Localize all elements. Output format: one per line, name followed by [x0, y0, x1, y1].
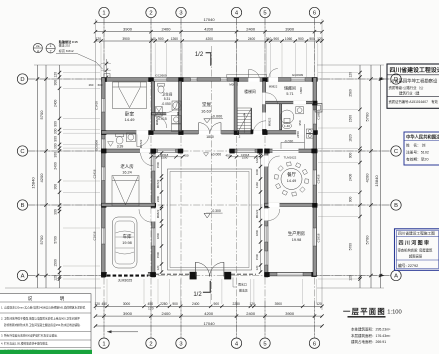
svg-text:2. 卫生间地坪低于楼面,地面与墙面防水砂浆上卷高900,卫: 2. 卫生间地坪低于楼面,地面与墙面防水砂浆上卷高900,卫生间地坪 — [1, 317, 80, 321]
left wing C wall columns — [101, 149, 155, 154]
svg-text:300: 300 — [54, 143, 58, 149]
window C1518 right wing — [265, 251, 268, 265]
window north bay3-4 right — [221, 78, 228, 81]
svg-text:车库: 车库 — [123, 233, 132, 240]
door opening prod top — [269, 203, 280, 207]
svg-text:1160: 1160 — [255, 182, 259, 188]
window east kitchen — [313, 110, 316, 124]
svg-text:5700: 5700 — [349, 243, 353, 251]
bath fixtures bay56 — [280, 107, 303, 129]
svg-text:注册号：5102: 注册号：5102 — [406, 149, 429, 154]
svg-text:-0.050: -0.050 — [161, 102, 171, 106]
grid bubble 5 bottom — [260, 338, 270, 348]
svg-text:5700: 5700 — [364, 235, 369, 245]
svg-text:120: 120 — [349, 275, 353, 281]
label bath 3.39 — [117, 145, 124, 149]
svg-text:4200: 4200 — [204, 311, 214, 316]
svg-text:C2418: C2418 — [93, 169, 97, 178]
svg-text:600: 600 — [98, 83, 103, 87]
svg-text:1500: 1500 — [255, 253, 259, 260]
svg-text:编号: 22792: 编号: 22792 — [398, 263, 418, 268]
grid bubble D right — [391, 74, 401, 84]
svg-text:300: 300 — [54, 128, 58, 134]
svg-text:JLM3025: JLM3025 — [118, 279, 132, 283]
svg-text:3: 3 — [179, 11, 182, 17]
top band inner wall columns — [148, 130, 267, 135]
svg-text:资质等级:公路行业（公: 资质等级:公路行业（公 — [389, 85, 424, 90]
svg-text:16.63: 16.63 — [201, 109, 212, 114]
garage door JLM3025 — [107, 272, 148, 277]
window C1818 right wing — [265, 226, 268, 242]
bath door opening bay23 — [166, 112, 177, 115]
svg-text:4200: 4200 — [39, 173, 44, 183]
code C1418 west — [95, 101, 99, 110]
svg-text:川省基园华坤工程勘察设: 川省基园华坤工程勘察设 — [390, 77, 438, 84]
svg-text:3: 3 — [179, 341, 182, 347]
code C18B east — [317, 112, 321, 119]
grid bubble 1 bottom — [99, 338, 109, 348]
bottom dimension line overall 17040 — [94, 321, 324, 328]
grid bubble 6 top — [309, 7, 319, 17]
elevation veranda — [204, 153, 222, 157]
stair-storage door opening — [262, 93, 265, 105]
right wing courtyard wall — [265, 151, 268, 277]
svg-text:120: 120 — [54, 275, 58, 281]
label garage — [122, 233, 132, 245]
svg-text:900: 900 — [349, 196, 353, 202]
svg-text:300: 300 — [54, 209, 58, 215]
svg-text:900: 900 — [54, 184, 58, 190]
exterior landing above north wall — [227, 74, 267, 77]
door opening prod room — [264, 209, 268, 221]
bath door opening bay12 — [136, 130, 149, 134]
svg-text:900: 900 — [158, 37, 164, 41]
window C1518 veranda west — [158, 149, 176, 152]
east wall niche — [315, 103, 322, 112]
grid bubble 5 top — [260, 7, 270, 17]
right wing C wall columns — [264, 149, 316, 154]
svg-text:5: 5 — [263, 11, 266, 17]
grid bubble 4 bottom — [231, 338, 241, 348]
left wing courtyard wall — [152, 151, 155, 277]
label elder room — [120, 163, 134, 175]
west wall columns — [101, 130, 106, 277]
svg-text:900: 900 — [54, 121, 58, 127]
right detail extension stubs — [318, 73, 358, 280]
door arc elder room — [141, 153, 154, 166]
svg-text:4200: 4200 — [204, 26, 214, 31]
svg-text:2400: 2400 — [54, 99, 58, 107]
svg-text:M0822: M0822 — [268, 117, 272, 126]
svg-text:5700: 5700 — [39, 235, 44, 245]
code GC0909 west — [95, 140, 99, 152]
svg-text:1/2: 1/2 — [195, 52, 204, 58]
top detail extension stubs — [101, 43, 318, 77]
right dimension axis spans — [364, 65, 372, 288]
svg-text:审查机构资质: 房屋建筑: 审查机构资质: 房屋建筑 — [398, 247, 434, 252]
svg-text:C2418: C2418 — [317, 174, 321, 183]
window C1418 west bedroom — [102, 99, 105, 113]
stair exit door opening north — [248, 77, 259, 81]
detail note text with leader — [56, 39, 103, 69]
svg-text:老人房: 老人房 — [120, 163, 134, 170]
right dimension overall 15840 — [374, 65, 382, 288]
stamp review certificate — [395, 229, 439, 270]
left wing C wall — [102, 149, 156, 152]
svg-text:C: C — [20, 149, 24, 155]
svg-text:D: D — [20, 77, 24, 83]
bottom detail extension stubs — [107, 279, 317, 304]
grid bubble 3 top — [176, 7, 186, 17]
window north bay3-4 left — [191, 78, 198, 81]
door arc prod room — [268, 209, 280, 221]
label small bath — [161, 92, 172, 107]
svg-text:900: 900 — [172, 302, 178, 306]
svg-text:900: 900 — [349, 152, 353, 158]
svg-text:2400: 2400 — [156, 195, 160, 202]
svg-text:1800: 1800 — [299, 87, 303, 94]
code C2418 west elder — [93, 169, 97, 178]
dim 1800 storage — [299, 87, 303, 94]
svg-text:900: 900 — [214, 302, 220, 306]
code C1518 veranda right — [241, 153, 250, 160]
staircase — [237, 108, 253, 139]
code GC0909 north right — [292, 73, 304, 77]
veranda wall columns — [149, 149, 263, 154]
window GC0909 north bay5-6 — [291, 78, 305, 81]
svg-text:1800: 1800 — [156, 232, 160, 239]
svg-text:M1022: M1022 — [255, 209, 259, 218]
label 2410 — [296, 131, 300, 138]
svg-text:950: 950 — [298, 120, 302, 125]
svg-text:卫生间: 卫生间 — [162, 92, 173, 97]
grid bubble C left — [17, 146, 27, 156]
stair east wall grid5 — [263, 81, 266, 130]
right wing courtyard dim chain — [255, 151, 262, 273]
grid bubble C right — [391, 146, 401, 156]
svg-text:2400: 2400 — [349, 174, 353, 182]
svg-text:-0.030: -0.030 — [284, 140, 294, 144]
svg-text:5700: 5700 — [364, 112, 369, 122]
grid bubble 1 top — [99, 7, 109, 17]
svg-text:做法:25J: 做法:25J — [59, 42, 71, 47]
east wall columns — [312, 101, 317, 208]
svg-text:楼梯间: 楼梯间 — [244, 89, 256, 94]
car in garage — [113, 217, 138, 268]
svg-text:C1818: C1818 — [93, 231, 97, 240]
code M0822 bay23 — [155, 116, 159, 125]
label 950 — [298, 120, 302, 125]
svg-text:雨水口: 雨水口 — [238, 281, 247, 286]
left dimension axis spans — [39, 65, 48, 288]
svg-text:C1418: C1418 — [95, 101, 99, 110]
svg-text:1/2: 1/2 — [193, 292, 202, 298]
left dimension overall 15840 — [31, 65, 40, 288]
svg-text:资质证书编号:A151016407 有效: 资质证书编号:A151016407 有效 — [389, 99, 439, 104]
svg-text:M0722: M0722 — [156, 179, 160, 188]
svg-text:2280: 2280 — [233, 302, 241, 306]
svg-text:A: A — [394, 274, 398, 280]
svg-text:1000: 1000 — [255, 168, 259, 175]
code C1818 west garage — [93, 231, 97, 240]
code C2418 east dining — [317, 174, 321, 183]
svg-text:120: 120 — [255, 265, 259, 270]
svg-text:120: 120 — [94, 302, 100, 306]
svg-text:1500: 1500 — [349, 115, 353, 123]
bottom dimension line axis spans — [94, 311, 324, 318]
left dimension detail chain — [54, 65, 62, 288]
svg-text:2400: 2400 — [246, 311, 256, 316]
svg-text:1: 1 — [50, 44, 52, 48]
svg-text:1620: 1620 — [349, 134, 353, 142]
arrow at A line — [380, 274, 385, 277]
detail reference bubbles — [33, 43, 55, 53]
svg-text:17040: 17040 — [203, 17, 215, 22]
bottom-left dim leader — [107, 330, 138, 333]
svg-text:-0.015: -0.015 — [157, 117, 167, 121]
svg-text:2: 2 — [149, 11, 152, 17]
svg-text:5.71: 5.71 — [286, 92, 293, 96]
storage north door arc — [269, 69, 278, 78]
svg-text:2400: 2400 — [162, 311, 172, 316]
label prod room — [288, 230, 305, 242]
svg-text:900: 900 — [298, 37, 304, 41]
svg-text:1500: 1500 — [54, 259, 58, 267]
bay23 small rooms divider — [152, 113, 179, 115]
right wing south columns — [264, 272, 316, 277]
door arc bath bay23 — [167, 102, 178, 113]
stamp registered architect — [404, 132, 439, 165]
svg-text:3.39: 3.39 — [117, 145, 124, 149]
svg-text:340: 340 — [266, 37, 272, 41]
svg-text:3900: 3900 — [122, 37, 130, 41]
window east prod room — [313, 228, 316, 246]
right wing courtyard wall columns — [264, 149, 269, 277]
dining round table with chairs — [274, 162, 308, 196]
gate column right — [224, 272, 231, 280]
svg-text:1060: 1060 — [285, 37, 293, 41]
label dining — [287, 171, 297, 183]
svg-text:3900: 3900 — [285, 311, 295, 316]
svg-text:3900: 3900 — [275, 302, 283, 306]
svg-text:1500: 1500 — [242, 156, 249, 160]
svg-text:2450: 2450 — [296, 131, 300, 138]
grid bubble 6 bottom — [309, 338, 319, 348]
svg-text:-0.300: -0.300 — [211, 209, 221, 213]
svg-text:姓 名： 刘: 姓 名： 刘 — [406, 143, 426, 148]
window C2418 west elder room — [102, 167, 105, 181]
svg-text:4: 4 — [37, 49, 39, 53]
svg-text:6: 6 — [313, 11, 316, 17]
svg-text:5.31: 5.31 — [164, 97, 171, 101]
hall east wall grid4 — [234, 81, 237, 130]
svg-text:5: 5 — [263, 341, 266, 347]
top dimension line axis spans — [94, 26, 324, 33]
right dimension detail chain — [349, 65, 362, 288]
top extension lines — [96, 18, 323, 310]
svg-text:4. 栏杆高出1.05,楼梯坡道扶手坡向做法.: 4. 栏杆高出1.05,楼梯坡道扶手坡向做法. — [1, 342, 49, 346]
svg-text:砂浆粉刷内掺防水剂,卫生间混凝土翻边高度150,防水层卷边铺: 砂浆粉刷内掺防水剂,卫生间混凝土翻边高度150,防水层卷边铺贴. — [4, 323, 81, 327]
kitchen counter and sink — [281, 124, 313, 149]
svg-text:四 川 河 图 审: 四 川 河 图 审 — [399, 240, 430, 247]
bed elder room — [112, 176, 139, 207]
east exterior wall — [313, 78, 317, 276]
svg-text:900: 900 — [54, 136, 58, 142]
bottom extension lines — [104, 300, 315, 338]
svg-text:GC0909: GC0909 — [95, 140, 99, 152]
grid bubble 4 top — [231, 7, 241, 17]
svg-text:B: B — [21, 203, 25, 209]
hall double door M1822 — [199, 123, 221, 134]
label hall — [201, 101, 223, 123]
door opening garage side — [151, 209, 155, 222]
svg-text:900: 900 — [54, 80, 58, 86]
svg-text:TLM1622: TLM1622 — [284, 155, 297, 159]
svg-text:260: 260 — [89, 83, 94, 87]
grid bubble B left — [17, 200, 27, 210]
svg-text:15840: 15840 — [374, 175, 379, 187]
code M0822 north door — [229, 82, 238, 86]
svg-text:±0.000: ±0.000 — [211, 114, 223, 118]
svg-text:450: 450 — [101, 302, 107, 306]
svg-text:120: 120 — [54, 72, 58, 78]
svg-text:四川省建设工程施工图: 四川省建设工程施工图 — [398, 231, 435, 236]
svg-text:5700: 5700 — [54, 236, 58, 244]
left wing courtyard wall columns — [151, 149, 156, 277]
drawing title — [343, 307, 402, 317]
svg-text:3. 所有外墙窗台离地900设护窗栏杆及安全玻璃.: 3. 所有外墙窗台离地900设护窗栏杆及安全玻璃. — [1, 334, 58, 338]
svg-text:15840: 15840 — [31, 177, 36, 189]
grid bubble 2 bottom — [146, 338, 156, 348]
label -0.030 — [284, 140, 294, 144]
section mark top — [195, 52, 211, 66]
svg-text:本层建筑面积：176.43m²: 本层建筑面积：176.43m² — [351, 333, 391, 338]
svg-text:M0722: M0722 — [139, 139, 143, 148]
stamp design institute — [387, 64, 439, 108]
gate door leaves — [195, 262, 224, 276]
svg-text:2580: 2580 — [349, 89, 353, 97]
svg-text:一层平面图: 一层平面图 — [343, 307, 386, 316]
svg-text:有效期：至20: 有效期：至20 — [406, 156, 429, 161]
svg-text:2400: 2400 — [162, 26, 172, 31]
label lower room — [157, 117, 167, 121]
svg-text:1: 1 — [102, 11, 105, 17]
label stair room — [244, 89, 256, 94]
window C2418 east dining — [313, 170, 316, 185]
door arc storage M0822 — [266, 93, 277, 104]
svg-text:4200: 4200 — [206, 37, 214, 41]
svg-text:1:100: 1:100 — [387, 310, 402, 316]
svg-text:2: 2 — [149, 341, 152, 347]
svg-text:3900: 3900 — [123, 311, 133, 316]
svg-text:1: 1 — [102, 341, 105, 347]
svg-text:4200: 4200 — [364, 173, 369, 183]
svg-text:2a: 2a — [36, 44, 40, 48]
grid bubble A right — [391, 270, 401, 280]
door opening elder from bath — [140, 149, 154, 153]
courtyard paving border — [168, 169, 252, 270]
hall door opening 1800 — [198, 130, 221, 134]
veranda front wall west segment — [149, 149, 183, 152]
svg-text:5700: 5700 — [39, 110, 44, 120]
north wall columns — [102, 77, 318, 82]
elevation courtyard — [204, 209, 223, 218]
right wing south wall — [265, 272, 317, 276]
code M0822 veranda — [268, 117, 272, 126]
svg-text:19.98: 19.98 — [292, 238, 302, 242]
bedroom east wall grid2 — [151, 81, 154, 130]
svg-text:900: 900 — [309, 37, 315, 41]
grid bubble 2 top — [146, 7, 156, 17]
svg-text:2400: 2400 — [248, 37, 256, 41]
elder-garage divider wall — [102, 203, 156, 206]
svg-text:±0.000: ±0.000 — [211, 153, 221, 157]
svg-text:3900: 3900 — [123, 26, 133, 31]
svg-text:1260: 1260 — [171, 37, 179, 41]
window C1518 left wing — [152, 154, 155, 171]
svg-text:900: 900 — [274, 37, 280, 41]
svg-text:GC0909: GC0909 — [155, 74, 167, 78]
svg-text:120: 120 — [316, 302, 322, 306]
right wing C wall — [265, 149, 317, 152]
window right wing south — [277, 272, 303, 275]
arrow at D line — [380, 77, 385, 80]
svg-text:1.40: 1.40 — [284, 124, 290, 128]
grid bubble B right — [391, 200, 401, 210]
door opening dining — [264, 156, 268, 167]
grid axis vertical lines 1-6 — [104, 18, 315, 338]
veranda dim line west — [150, 155, 185, 158]
svg-text:说: 说 — [28, 295, 33, 302]
right extension lines — [317, 65, 391, 288]
svg-text:C18B: C18B — [317, 112, 321, 119]
svg-text:1500: 1500 — [156, 161, 160, 168]
storage north door opening — [269, 77, 278, 81]
label storage — [284, 86, 296, 97]
code M0722 bath door — [139, 139, 143, 148]
lower small room fixtures — [155, 116, 181, 132]
svg-text:M0822: M0822 — [269, 85, 278, 89]
door arc dining — [268, 156, 280, 168]
svg-text:2280: 2280 — [160, 302, 168, 306]
north exterior wall — [102, 78, 318, 82]
label bedroom — [124, 111, 135, 123]
green status bar — [0, 350, 92, 354]
svg-text:2400: 2400 — [192, 302, 200, 306]
door arc veranda-stair M0822 — [253, 121, 266, 134]
window C1518 veranda east — [237, 149, 255, 152]
hall west wall grid3 — [179, 81, 182, 130]
code M0822 stair — [269, 85, 278, 89]
opening TLM1622 dining — [273, 149, 299, 153]
section mark bottom — [193, 281, 210, 298]
rainwater note — [233, 278, 248, 293]
svg-text:19.98: 19.98 — [122, 241, 132, 245]
flue detail with dims — [89, 59, 111, 87]
svg-text:储藏间: 储藏间 — [284, 86, 296, 91]
grid5 wall column at door — [262, 129, 266, 134]
divider door opening bay56 — [293, 101, 306, 104]
top dimension line detail — [94, 37, 324, 43]
svg-text:14.49: 14.49 — [287, 179, 297, 183]
garage wall corner columns — [101, 272, 155, 277]
code TLM1622 dining — [284, 155, 297, 159]
svg-text:本栋建筑面积：295.23m²: 本栋建筑面积：295.23m² — [351, 327, 391, 332]
stair door opening M0822 — [253, 130, 264, 134]
svg-text:2400: 2400 — [246, 26, 256, 31]
grid bubble D left — [17, 74, 27, 84]
svg-text:餐厅: 餐厅 — [287, 171, 296, 178]
